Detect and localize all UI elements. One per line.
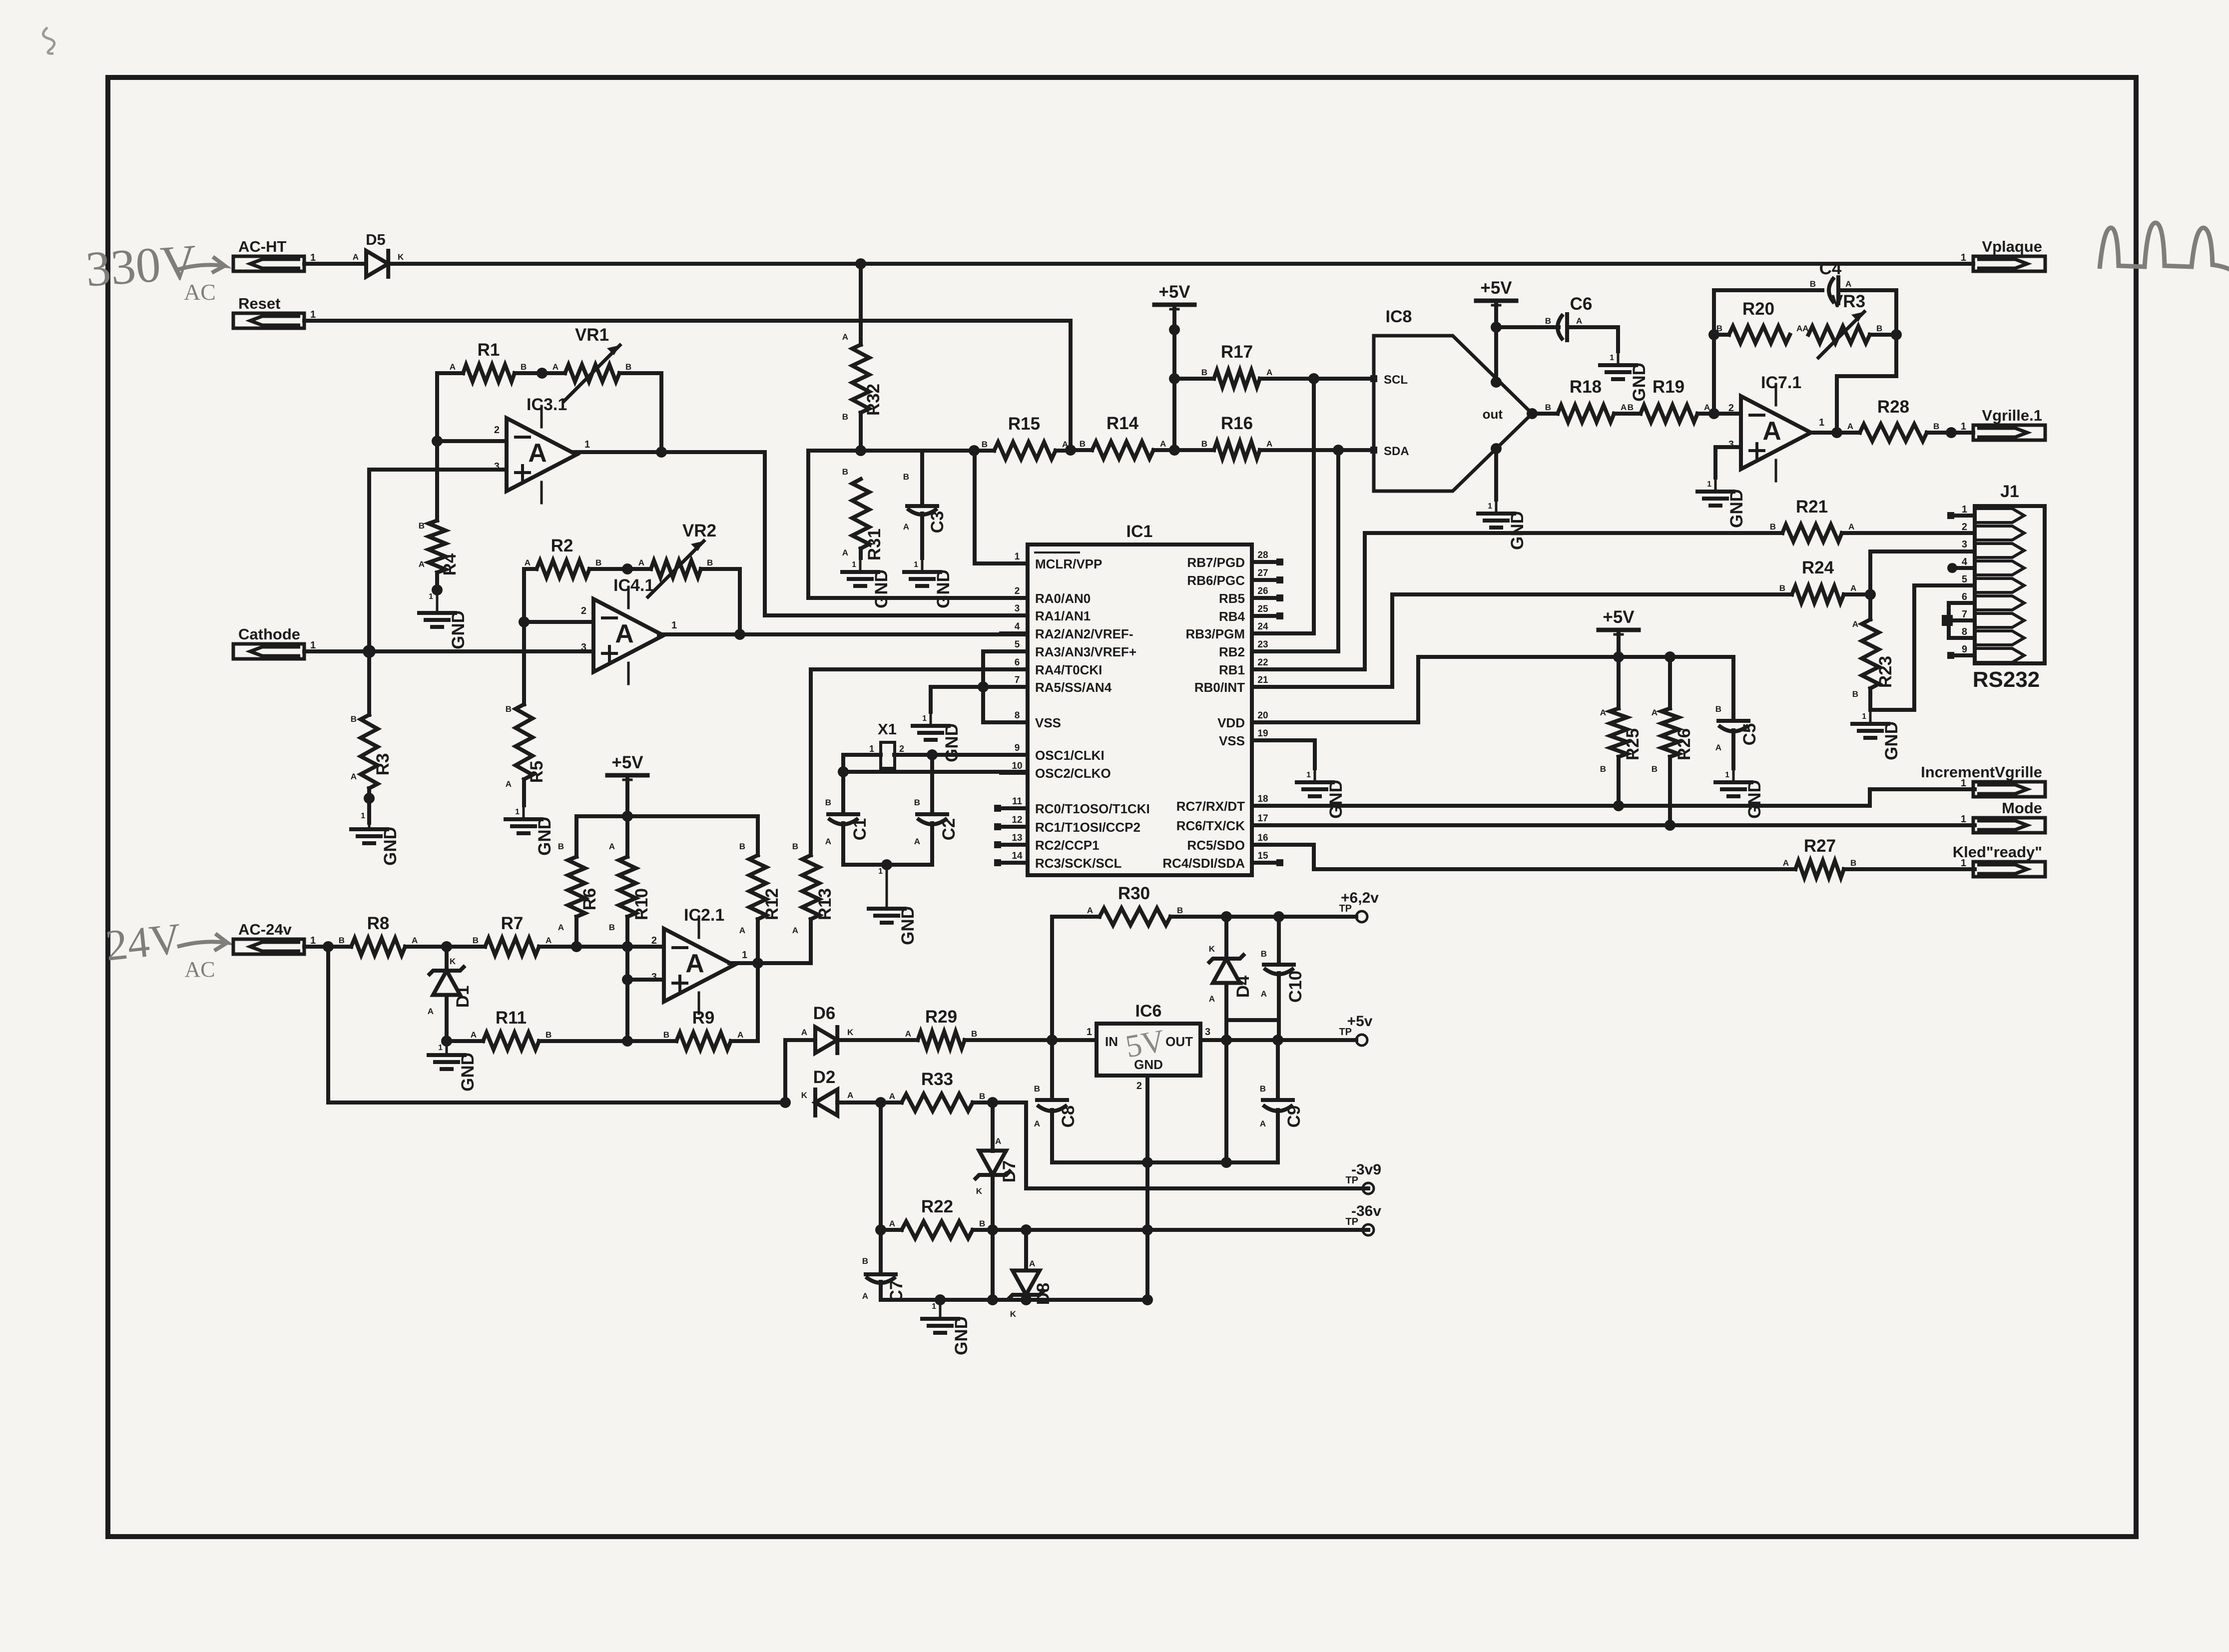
wire VDD rail	[1275, 657, 1733, 722]
svg-text:A: A	[905, 1029, 911, 1039]
svg-text:15: 15	[1257, 851, 1268, 861]
svg-text:A: A	[739, 926, 745, 935]
svg-text:R11: R11	[496, 1008, 527, 1028]
zener diode D7	[974, 1102, 1019, 1300]
resistor R27	[1783, 836, 1975, 878]
node junction SDA branch	[1333, 445, 1344, 456]
wire Cathode line	[304, 649, 593, 653]
ground at IC7.1	[1697, 478, 1746, 528]
svg-text:A: A	[1704, 403, 1710, 412]
connector IncrementVgrille	[1921, 763, 2045, 797]
svg-text:B: B	[1261, 949, 1267, 959]
resistor R17	[1174, 342, 1314, 387]
svg-text:9: 9	[1015, 743, 1020, 753]
svg-text:A: A	[862, 1291, 868, 1301]
svg-text:1: 1	[1707, 480, 1711, 489]
node junction AC-24v loop	[323, 941, 334, 952]
svg-text:A: A	[847, 1091, 853, 1100]
resistor R4	[419, 441, 460, 590]
node junction R26 bottom	[1665, 820, 1675, 831]
wire -36v line	[1026, 1228, 1368, 1232]
svg-text:B: B	[842, 412, 848, 422]
resistor R31	[842, 467, 884, 560]
svg-text:12: 12	[1012, 815, 1022, 825]
wire AC-24v down loop	[328, 947, 785, 1102]
resistor R10	[609, 816, 651, 1041]
wire D6 link vertical	[783, 1040, 787, 1102]
svg-text:2: 2	[1136, 1081, 1142, 1092]
node junction stem on IC8 edge	[1491, 377, 1502, 388]
svg-text:1: 1	[671, 620, 677, 631]
node junction GND pin rail	[1142, 1157, 1153, 1168]
svg-text:B: B	[625, 362, 631, 372]
svg-text:RB4: RB4	[1219, 609, 1245, 624]
svg-text:+5V: +5V	[611, 753, 643, 772]
wire SDA to IC8	[1338, 448, 1370, 452]
resistor R5	[506, 622, 547, 805]
svg-text:B: B	[1852, 689, 1858, 699]
svg-text:13: 13	[1012, 833, 1022, 843]
resistor R6	[558, 816, 599, 947]
svg-text:Reset: Reset	[238, 295, 280, 312]
svg-text:A: A	[553, 362, 558, 372]
svg-text:A: A	[1845, 279, 1851, 289]
wire R30 to +6,2v TP	[1170, 915, 1356, 919]
node junction R6 bottom	[571, 941, 582, 952]
svg-text:RB0/INT: RB0/INT	[1194, 680, 1245, 695]
svg-text:Vplaque: Vplaque	[1982, 238, 2042, 255]
resistor R29	[905, 1007, 1097, 1049]
svg-text:23: 23	[1257, 639, 1268, 650]
node junction D1 top	[441, 941, 452, 952]
svg-text:14: 14	[1012, 851, 1023, 861]
wire OSC2 row	[843, 770, 1028, 774]
ground below C3	[904, 558, 953, 608]
wire OSC1 row	[894, 753, 1028, 757]
svg-text:+5v: +5v	[1347, 1013, 1373, 1030]
svg-text:B: B	[1260, 1084, 1266, 1094]
svg-text:3: 3	[1205, 1027, 1210, 1038]
wire R1 feedback left leg	[435, 373, 439, 441]
svg-text:GND: GND	[535, 817, 555, 856]
svg-text:R17: R17	[1221, 342, 1253, 362]
svg-text:RA0/AN0: RA0/AN0	[1035, 591, 1091, 606]
node row to RA0	[808, 451, 1028, 598]
svg-text:5: 5	[1015, 639, 1020, 650]
svg-text:Vgrille.1: Vgrille.1	[1982, 407, 2042, 424]
svg-text:R28: R28	[1877, 397, 1909, 417]
node junction R22 right / D8	[1021, 1224, 1032, 1235]
connector AC-HT	[233, 238, 316, 271]
test point +6,2v	[1339, 890, 1379, 922]
wire IC4.1 output to RA2	[659, 632, 1028, 636]
svg-text:A: A	[1783, 858, 1789, 868]
ground below crystal	[869, 865, 918, 945]
svg-text:B: B	[506, 704, 512, 714]
svg-text:1: 1	[429, 592, 433, 601]
node junction stem/C6	[1491, 322, 1502, 333]
svg-text:VR1: VR1	[575, 325, 609, 345]
svg-text:A: A	[825, 837, 831, 846]
node junction D7 bottom	[987, 1294, 998, 1305]
ground symbol VSS right	[1297, 768, 1346, 819]
node junction C10 top	[1273, 911, 1284, 922]
svg-text:1: 1	[310, 935, 316, 946]
svg-text:2: 2	[494, 425, 500, 436]
IC IC1 microcontroller	[994, 522, 1283, 875]
svg-text:19: 19	[1257, 728, 1268, 739]
node junction IC8 lower edge	[1491, 443, 1502, 454]
capacitor C8	[1034, 1084, 1078, 1128]
svg-text:-3v9: -3v9	[1351, 1161, 1381, 1178]
resistor R14	[1071, 414, 1174, 459]
svg-text:B: B	[1201, 439, 1207, 449]
svg-text:24: 24	[1257, 621, 1268, 632]
svg-text:B: B	[1810, 279, 1816, 289]
svg-text:R21: R21	[1796, 497, 1828, 517]
svg-text:B: B	[971, 1029, 977, 1039]
power +5V above R6 R10	[607, 753, 647, 780]
node junction loop right	[1891, 329, 1902, 340]
wire AC-HT to D5	[304, 262, 366, 266]
svg-text:R33: R33	[921, 1070, 953, 1089]
svg-text:SDA: SDA	[1384, 445, 1409, 458]
svg-text:A: A	[1621, 403, 1627, 412]
svg-text:1: 1	[1306, 771, 1311, 779]
svg-text:A: A	[615, 619, 634, 648]
svg-text:A: A	[914, 837, 920, 846]
svg-text:A: A	[471, 1030, 477, 1040]
capacitor C10	[1261, 917, 1305, 1020]
svg-text:C3: C3	[928, 511, 947, 534]
pin 15 RC4 stub square	[1276, 859, 1283, 866]
svg-text:RC1/T1OSI/CCP2: RC1/T1OSI/CCP2	[1035, 820, 1140, 835]
svg-text:GND: GND	[934, 569, 953, 608]
wire +5V stem	[1172, 309, 1176, 450]
svg-text:C9: C9	[1284, 1105, 1304, 1128]
wire SDA branch to RB2	[1275, 450, 1338, 651]
svg-text:1: 1	[1610, 354, 1614, 362]
svg-text:16: 16	[1257, 833, 1268, 843]
resistor R19	[1614, 377, 1714, 422]
ground below C6	[1600, 351, 1649, 402]
wire D2 to R33 node	[837, 1101, 902, 1104]
svg-text:1: 1	[1962, 504, 1967, 515]
zener diode D8	[1008, 1230, 1053, 1319]
svg-text:A: A	[1850, 583, 1856, 593]
diode D6	[801, 1004, 854, 1053]
svg-text:IC1: IC1	[1126, 522, 1153, 541]
svg-text:+5V: +5V	[1480, 278, 1512, 298]
node junction R4 bottom	[432, 584, 443, 595]
resistor R1	[437, 340, 527, 382]
node junction rail/R25	[1613, 651, 1624, 662]
svg-text:B: B	[979, 1219, 985, 1228]
svg-text:GND: GND	[1727, 489, 1746, 528]
svg-text:20: 20	[1257, 710, 1268, 721]
node junction R2/VR2	[622, 563, 633, 574]
svg-text:+5V: +5V	[1158, 282, 1190, 302]
wire VR2 to output	[738, 569, 742, 634]
svg-text:1: 1	[869, 744, 874, 754]
svg-text:1: 1	[1488, 502, 1492, 511]
svg-text:6: 6	[1962, 591, 1967, 602]
svg-text:MCLR/VPP: MCLR/VPP	[1035, 556, 1102, 571]
node junction minus/R1 loop	[432, 436, 443, 447]
power +5V above R25	[1599, 607, 1639, 634]
svg-text:R24: R24	[1802, 558, 1834, 577]
node junction R29/C8 rail	[1047, 1035, 1058, 1046]
node junction OUT/D4 column	[1221, 1035, 1232, 1046]
svg-text:1: 1	[1961, 778, 1966, 789]
svg-text:B: B	[521, 362, 527, 372]
wire +5V rail	[576, 814, 758, 818]
svg-text:RC2/CCP1: RC2/CCP1	[1035, 838, 1100, 853]
svg-text:R18: R18	[1570, 377, 1602, 397]
connector Cathode	[233, 625, 316, 659]
handwritten waveform squiggle	[2100, 223, 2229, 273]
svg-text:RA2/AN2/VREF-: RA2/AN2/VREF-	[1035, 626, 1133, 641]
wire R30 left rail	[1052, 917, 1100, 1040]
svg-text:AC-24v: AC-24v	[238, 921, 292, 938]
svg-text:IC3.1: IC3.1	[527, 395, 567, 414]
svg-text:2: 2	[1015, 586, 1020, 596]
crystal X1	[869, 720, 904, 768]
resistor R7	[473, 914, 552, 955]
svg-text:1: 1	[310, 309, 316, 320]
ground below C5	[1715, 768, 1764, 819]
wire IC4.1 minus input	[524, 620, 593, 624]
svg-text:A: A	[351, 772, 357, 781]
svg-text:1: 1	[932, 1302, 936, 1311]
svg-text:B: B	[473, 936, 479, 945]
node junction GND vertical crossing	[1142, 1224, 1153, 1235]
power +5V above IC8	[1476, 278, 1516, 305]
svg-text:D4: D4	[1233, 975, 1253, 998]
wire D6 branch	[785, 1038, 815, 1042]
svg-text:7: 7	[1962, 609, 1967, 620]
svg-text:IC6: IC6	[1135, 1002, 1162, 1021]
svg-text:2: 2	[899, 744, 904, 754]
svg-text:B: B	[1177, 906, 1183, 915]
svg-text:RC3/SCK/SCL: RC3/SCK/SCL	[1035, 856, 1121, 871]
svg-text:24V: 24V	[103, 915, 184, 971]
svg-text:A: A	[1847, 422, 1853, 431]
svg-text:B: B	[339, 936, 345, 945]
node junction R33 left	[875, 1097, 886, 1108]
svg-text:B: B	[351, 714, 357, 724]
node junction stem/R17	[1169, 373, 1180, 384]
svg-text:RB2: RB2	[1219, 644, 1245, 659]
wire SCL to IC8	[1314, 377, 1370, 381]
svg-text:GND: GND	[458, 1053, 478, 1092]
svg-text:A: A	[450, 362, 456, 372]
ground below R4	[419, 590, 468, 649]
svg-text:1: 1	[438, 1044, 443, 1052]
capacitor C6	[1545, 294, 1618, 351]
svg-text:B: B	[1201, 368, 1207, 377]
capacitor C3	[903, 451, 947, 558]
svg-text:A: A	[792, 926, 798, 935]
potentiometer VR1	[515, 325, 661, 401]
svg-text:B: B	[1933, 422, 1939, 431]
node junction XTAL gnd	[881, 859, 892, 870]
svg-text:R10: R10	[632, 888, 651, 920]
svg-text:OSC2/CLKO: OSC2/CLKO	[1035, 766, 1111, 781]
regulator IC6	[1087, 1002, 1210, 1092]
wire RC6 row	[1275, 823, 1975, 827]
svg-text:A: A	[528, 439, 547, 468]
svg-text:A: A	[1848, 522, 1854, 532]
svg-text:B: B	[1545, 316, 1551, 326]
svg-text:2: 2	[651, 935, 657, 946]
svg-text:3: 3	[1015, 603, 1020, 614]
wire IC3.1 output to RA1	[574, 452, 1028, 615]
resistor R16	[1174, 414, 1338, 459]
svg-text:B: B	[1876, 324, 1882, 333]
svg-text:22: 22	[1257, 657, 1268, 668]
svg-text:1: 1	[878, 867, 883, 876]
svg-text:IC8: IC8	[1386, 307, 1412, 326]
wire RA5 ground link	[931, 687, 1028, 712]
svg-text:A: A	[1034, 1119, 1040, 1128]
wire IC2.1 plus row	[627, 978, 664, 982]
resistor R21	[1770, 497, 1975, 542]
svg-text:GND: GND	[952, 1316, 971, 1355]
svg-text:GND: GND	[381, 827, 400, 866]
svg-text:7: 7	[1015, 675, 1020, 685]
svg-text:R31: R31	[865, 529, 884, 560]
svg-text:4: 4	[1962, 556, 1968, 567]
node junction R10 minus row	[622, 941, 633, 952]
svg-text:R1: R1	[478, 340, 500, 360]
svg-text:A: A	[638, 558, 644, 567]
wire VR1 to output	[659, 373, 663, 452]
node junction OUT/C9 column	[1272, 1035, 1283, 1046]
svg-text:R25: R25	[1623, 728, 1643, 760]
svg-text:B: B	[546, 1030, 552, 1040]
svg-text:C10: C10	[1286, 971, 1305, 1003]
wire C4 loop right leg	[1837, 290, 1896, 433]
svg-text:8: 8	[1962, 626, 1967, 637]
wire RA3 to VSS	[983, 651, 1028, 722]
svg-text:B: B	[862, 1256, 868, 1266]
node junction R25 bottom	[1613, 800, 1624, 811]
op-amp IC4.1	[581, 576, 677, 684]
wire left rail to C7	[879, 1102, 883, 1230]
svg-text:K: K	[976, 1186, 983, 1196]
svg-text:GND: GND	[1630, 363, 1649, 402]
svg-text:R4: R4	[440, 553, 460, 575]
node junction VR1/output	[656, 447, 667, 458]
svg-text:26: 26	[1257, 586, 1268, 596]
svg-text:B: B	[707, 558, 713, 567]
svg-text:R16: R16	[1221, 414, 1253, 433]
svg-text:D1: D1	[453, 986, 473, 1008]
ground below D1	[429, 1041, 478, 1092]
node junction R33 right	[987, 1097, 998, 1108]
wire SCL branch to RB3	[1275, 379, 1314, 633]
svg-text:R20: R20	[1742, 299, 1774, 319]
resistor R25	[1600, 657, 1643, 806]
test point -36v	[1345, 1203, 1381, 1235]
IC IC8 converter	[1370, 307, 1532, 491]
svg-text:IC7.1: IC7.1	[1761, 373, 1801, 392]
wire R2 feedback left leg	[522, 569, 526, 622]
wire IC2.1 minus row	[539, 945, 664, 949]
connector Kled ready	[1953, 843, 2045, 877]
svg-text:B: B	[595, 558, 601, 567]
wire R9 feedback leg	[756, 963, 760, 1041]
svg-text:R27: R27	[1804, 836, 1836, 856]
wire C10 column down	[1277, 1020, 1281, 1040]
svg-text:R2: R2	[551, 536, 573, 555]
svg-text:27: 27	[1257, 568, 1268, 578]
svg-text:R7: R7	[501, 914, 524, 933]
node junction R19/feedback	[1708, 408, 1719, 419]
svg-text:1: 1	[1725, 771, 1729, 779]
wire C8 bottom corner	[1052, 1110, 1278, 1162]
svg-text:R30: R30	[1118, 884, 1150, 903]
wire IC2.1 output row	[729, 961, 811, 965]
svg-text:R29: R29	[925, 1007, 957, 1027]
node junction output/feedback	[1831, 427, 1842, 438]
svg-text:B: B	[792, 842, 798, 851]
connector Vgrille.1	[1961, 407, 2045, 440]
diode D2	[801, 1068, 854, 1115]
J1 pin9 stub	[1947, 652, 1975, 659]
wire D6 to R29	[837, 1038, 918, 1042]
connector Vplaque	[1961, 238, 2045, 271]
svg-text:330V: 330V	[84, 234, 198, 297]
wire AC-HT line to Vplaque	[388, 262, 1973, 266]
wire Reset line	[304, 321, 1071, 450]
svg-text:OUT: OUT	[1165, 1034, 1193, 1049]
svg-text:1: 1	[1961, 858, 1966, 869]
svg-text:C4: C4	[1819, 259, 1842, 278]
svg-text:VSS: VSS	[1219, 733, 1245, 748]
svg-text:AA: AA	[1796, 324, 1809, 333]
svg-text:OSC1/CLKI: OSC1/CLKI	[1035, 748, 1105, 763]
svg-text:A: A	[889, 1092, 895, 1101]
svg-text:B: B	[419, 521, 425, 531]
svg-text:A: A	[1852, 619, 1858, 629]
svg-text:A: A	[558, 923, 564, 932]
connector J1	[1962, 482, 2045, 663]
svg-text:K: K	[1209, 944, 1215, 954]
svg-text:D6: D6	[813, 1004, 836, 1023]
J1 pin6-7-8 links	[1942, 603, 1975, 638]
capacitor C9	[1260, 1040, 1304, 1162]
svg-text:IncrementVgrille: IncrementVgrille	[1921, 763, 2042, 781]
wire C6 branch	[1496, 325, 1559, 329]
svg-text:R5: R5	[527, 761, 547, 783]
svg-text:9: 9	[1962, 644, 1967, 655]
wire X1 left leg	[843, 755, 881, 814]
node junction D8 bottom	[1021, 1294, 1032, 1305]
test point +5v	[1339, 1013, 1372, 1046]
svg-text:1: 1	[914, 560, 918, 569]
svg-text:1: 1	[584, 439, 590, 450]
wire R8 to R7	[405, 945, 485, 949]
svg-text:GND: GND	[449, 610, 468, 649]
svg-text:B: B	[979, 1092, 985, 1101]
svg-text:VR2: VR2	[682, 521, 716, 541]
svg-text:18: 18	[1257, 794, 1268, 804]
svg-text:B: B	[1770, 522, 1776, 532]
node junction OSC2/X1 left	[838, 766, 849, 777]
svg-text:A: A	[609, 842, 615, 851]
